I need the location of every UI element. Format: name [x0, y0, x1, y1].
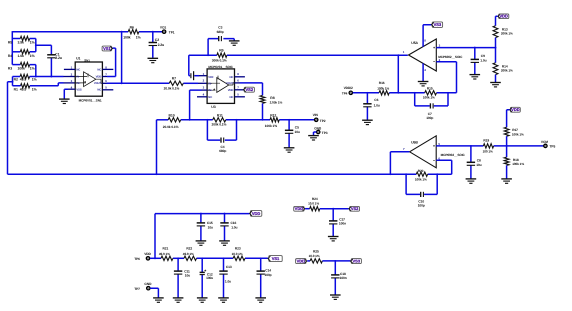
wire ref cap to U3 pin1	[194, 75, 207, 77]
svg-text:C15: C15	[207, 221, 213, 225]
label U1	[76, 57, 90, 63]
wire C3 branch	[208, 39, 234, 56]
flag VDD at rail	[250, 211, 262, 217]
svg-text:NC: NC	[76, 69, 80, 72]
svg-text:VOUT: VOUT	[94, 82, 102, 85]
wire U1 VDD to VS1	[102, 48, 115, 76]
svg-text:10u: 10u	[476, 163, 481, 167]
wire node to R14	[495, 48, 497, 63]
capacitor C17	[329, 218, 346, 226]
pin numbers U5A	[403, 39, 441, 72]
node U5B out junction	[389, 173, 391, 175]
resistor R20	[415, 169, 428, 182]
wire C17 stem	[332, 209, 334, 237]
svg-text:TP3: TP3	[322, 131, 328, 135]
ground U1 VSS	[59, 99, 70, 103]
node R17 R18 junction	[506, 145, 508, 147]
svg-text:10u: 10u	[185, 274, 190, 278]
svg-text:IN+: IN+	[208, 89, 213, 92]
wire C18 stem	[334, 261, 336, 295]
svg-text:R24: R24	[312, 197, 318, 201]
pin stub U3 pin4 NC	[197, 96, 207, 98]
wire U1 output row	[102, 82, 207, 84]
svg-text:VDD: VDD	[144, 252, 151, 256]
svg-text:MCP6V01__SN1: MCP6V01__SN1	[79, 98, 102, 102]
svg-text:680p: 680p	[217, 30, 224, 34]
capacitor C8	[467, 158, 482, 167]
svg-text:SN1: SN1	[84, 59, 90, 63]
svg-text:GND: GND	[144, 282, 152, 286]
svg-text:VO1: VO1	[160, 25, 167, 29]
node C7 right	[447, 92, 449, 94]
op-amp U3 body	[207, 69, 234, 104]
svg-text:IN-: IN-	[208, 82, 212, 85]
pin stub U1 pin5 NC	[102, 89, 113, 91]
svg-text:100p: 100p	[426, 116, 433, 120]
svg-text:100k: 100k	[123, 35, 130, 39]
svg-text:VDD: VDD	[499, 14, 508, 19]
svg-text:VS2: VS2	[246, 87, 254, 92]
wire R9 left node	[189, 55, 217, 75]
resistor R21	[159, 247, 173, 261]
wire U3 output to R8	[235, 83, 263, 96]
wire output feedback riser	[121, 32, 123, 84]
node C11 tap	[177, 257, 179, 259]
ground C16	[219, 241, 230, 245]
wire C8 stem	[470, 146, 472, 179]
ground C6	[362, 120, 373, 124]
wire R24 to VS2	[320, 208, 349, 210]
resistor R15	[423, 87, 437, 100]
svg-text:49.9 1%: 49.9 1%	[159, 252, 170, 256]
op-amp U5B	[410, 136, 437, 168]
wire TP4 row	[353, 92, 457, 94]
svg-text:10u: 10u	[295, 130, 300, 134]
node U5A output tap	[397, 54, 399, 56]
svg-text:R13: R13	[502, 27, 508, 31]
ground TP3	[308, 136, 319, 140]
op-amp U5A	[409, 39, 437, 71]
ground C2	[148, 58, 159, 62]
ground C17	[328, 237, 339, 241]
svg-text:100u: 100u	[206, 276, 213, 280]
node R10-R11 C4 left	[206, 119, 208, 121]
svg-text:680p: 680p	[219, 149, 226, 153]
svg-text:C6: C6	[374, 98, 378, 102]
node feedback top	[121, 31, 123, 33]
resistor R14	[493, 63, 513, 75]
resistor R22	[183, 247, 197, 261]
resistor R7	[164, 77, 184, 91]
wire U1 inverting input row	[30, 76, 76, 78]
wire gain row drop	[156, 120, 158, 174]
capacitor C13	[219, 265, 232, 283]
svg-text:100n: 100n	[340, 276, 347, 280]
svg-text:100k 1%: 100k 1%	[265, 124, 277, 128]
resistor R11	[212, 113, 227, 126]
capacitor C7	[426, 103, 433, 120]
svg-text:R23: R23	[235, 247, 241, 251]
svg-text:VRF: VRF	[208, 76, 214, 79]
capacitor C3	[217, 26, 224, 42]
test point TP5	[541, 140, 556, 149]
wire C11 stem	[177, 258, 179, 297]
ground C14	[255, 298, 266, 302]
wire R3 to inverting node	[30, 65, 36, 77]
test point TP3	[314, 126, 328, 135]
svg-text:NC: NC	[97, 88, 101, 91]
wire C6 stem	[366, 93, 368, 120]
wire U5A VSS pin	[422, 63, 424, 81]
ground C12	[197, 298, 208, 302]
svg-text:100 1%: 100 1%	[483, 150, 493, 154]
svg-text:VSS: VSS	[76, 88, 82, 91]
wire R13 to node	[495, 38, 497, 48]
node feedback bottom	[121, 82, 123, 84]
node rail drop	[154, 257, 156, 259]
svg-text:R9: R9	[219, 49, 223, 53]
svg-text:1%: 1%	[32, 78, 37, 82]
capacitor C9	[471, 54, 487, 62]
node C10 right	[436, 173, 438, 175]
wire C13 stem	[223, 258, 225, 297]
ground R18	[501, 179, 512, 183]
svg-text:R25: R25	[313, 249, 319, 253]
svg-text:R6: R6	[130, 26, 134, 30]
svg-text:1.0k: 1.0k	[18, 54, 25, 58]
wire C12 stem	[201, 258, 203, 297]
node C13 tap	[223, 257, 225, 259]
wire VDD to R25	[307, 260, 310, 262]
svg-text:VS1: VS1	[272, 256, 280, 261]
svg-text:VS3: VS3	[353, 259, 361, 264]
svg-text:C8: C8	[477, 158, 481, 162]
label U5B part	[441, 153, 466, 157]
svg-text:100n: 100n	[339, 221, 346, 225]
svg-text:NC: NC	[208, 96, 212, 99]
wire U3 pin3 to gain node	[190, 90, 208, 120]
svg-text:2.2u: 2.2u	[158, 43, 165, 47]
svg-text:300k 0.1%: 300k 0.1%	[212, 59, 227, 63]
pin names U3	[208, 76, 233, 99]
resistor R3	[8, 62, 35, 70]
label U3 part	[208, 65, 233, 69]
svg-text:1%: 1%	[32, 88, 37, 92]
wire VOUT1 top feedback rail	[12, 31, 162, 33]
svg-text:NC: NC	[97, 69, 101, 72]
wire TP7 to ground	[150, 288, 158, 297]
wire U3 ref cap link	[189, 75, 190, 77]
label U1 part	[79, 98, 102, 102]
node bus-to-IN-	[35, 76, 37, 78]
wire C16 stem	[224, 214, 226, 241]
node C4 right	[236, 119, 238, 121]
capacitor C4 loop wire	[207, 120, 236, 140]
svg-text:VS2: VS2	[351, 206, 359, 211]
resistor R18	[504, 157, 524, 166]
resistor R13	[493, 26, 513, 38]
wire R14 to ground	[495, 75, 497, 83]
ground C9	[470, 75, 481, 79]
wire R25 to VS3	[322, 260, 350, 262]
node U3 IN+ junction	[189, 119, 191, 121]
wire R17 R18 through row	[506, 136, 508, 157]
wire U5A non-inverting input	[436, 47, 495, 49]
svg-text:R5: R5	[8, 41, 12, 45]
svg-text:100p: 100p	[418, 203, 425, 207]
svg-text:20.0k 0.1%: 20.0k 0.1%	[163, 125, 179, 129]
svg-text:1.0u: 1.0u	[374, 103, 380, 107]
ground C5	[284, 148, 295, 152]
svg-text:VDD: VDD	[96, 76, 102, 79]
svg-text:NC: NC	[229, 96, 233, 99]
ground C18	[330, 295, 341, 299]
svg-text:VOUT: VOUT	[226, 82, 234, 85]
wire long feedback rail	[8, 173, 452, 175]
flag VS3 at U5A	[431, 22, 442, 28]
flag VS1 at filter	[268, 256, 282, 262]
wire gain row	[157, 119, 315, 121]
resistor R23	[232, 247, 245, 261]
svg-text:IN+: IN+	[76, 82, 81, 85]
resistor R25	[309, 249, 323, 263]
wire C1 branch	[36, 45, 52, 76]
wire C2 stem	[152, 32, 154, 58]
wire VS1 filter row	[150, 257, 268, 259]
svg-text:VS1: VS1	[103, 46, 111, 51]
flag VDD at R13	[496, 14, 509, 26]
svg-text:1%: 1%	[30, 54, 35, 58]
svg-text:R4: R4	[8, 54, 12, 58]
svg-text:U1: U1	[76, 57, 80, 61]
pin numbers U1	[71, 66, 108, 90]
svg-text:10.0 1%: 10.0 1%	[232, 252, 243, 256]
node C9 tap	[474, 47, 476, 49]
wire U5B non-inverting row	[436, 145, 544, 147]
ground C11	[173, 298, 184, 302]
resistor R16	[377, 81, 389, 95]
ground U5A	[418, 82, 429, 86]
flag VDD at R17	[507, 107, 521, 127]
node C1 tap	[35, 44, 37, 46]
wire U5A VDD pin to VS3	[423, 25, 431, 47]
pin numbers U3	[203, 72, 240, 96]
svg-text:TP1: TP1	[169, 30, 175, 34]
svg-text:R7: R7	[172, 77, 176, 81]
node divider mid	[495, 47, 497, 49]
resistor R17	[504, 127, 524, 136]
resistor R5	[8, 36, 35, 44]
svg-text:1.0u: 1.0u	[225, 279, 231, 283]
svg-text:200k 1%: 200k 1%	[501, 69, 513, 73]
capacitor C16	[220, 221, 237, 230]
svg-text:10u: 10u	[208, 226, 213, 230]
svg-text:TP7: TP7	[134, 287, 140, 291]
wire C9 stem	[474, 48, 476, 75]
wire R5-R4 right bus	[30, 39, 36, 52]
svg-text:VDD: VDD	[252, 211, 261, 216]
flag VS2 at filter	[349, 206, 360, 211]
svg-text:MCP6V01__SOIC: MCP6V01__SOIC	[208, 65, 233, 69]
wire R1 to U1 non-inverting	[30, 83, 75, 86]
wire R2 R1 left tie	[8, 77, 21, 175]
label U5A part	[438, 55, 463, 59]
ground C3	[229, 41, 240, 45]
node C1-to-IN-	[50, 76, 52, 78]
svg-text:VDD: VDD	[228, 89, 234, 92]
svg-text:TP2: TP2	[320, 119, 326, 123]
svg-text:U5A: U5A	[411, 41, 418, 45]
node C10 left	[405, 173, 407, 175]
node C15 tap	[200, 213, 202, 215]
capacitor C6	[363, 98, 380, 107]
test point TP2	[313, 113, 326, 123]
svg-text:C2: C2	[155, 38, 159, 42]
flag VS3 at filter	[350, 259, 361, 264]
capacitor U3 ref	[191, 71, 194, 80]
capacitor C1	[47, 52, 62, 60]
resistor R2	[14, 74, 37, 81]
resistor R4	[8, 50, 35, 58]
svg-text:R16: R16	[379, 81, 385, 85]
svg-text:U3: U3	[211, 105, 215, 109]
resistor R19	[483, 139, 494, 154]
svg-text:3.9k: 3.9k	[18, 41, 25, 45]
svg-text:C13: C13	[226, 265, 232, 269]
node C3 tap	[207, 54, 209, 56]
svg-text:20.0k 0.1%: 20.0k 0.1%	[164, 87, 180, 91]
node C16 tap	[224, 213, 226, 215]
svg-text:200k 0.1%: 200k 0.1%	[212, 123, 227, 127]
capacitor C4	[219, 138, 226, 153]
wire C14 stem	[260, 258, 262, 297]
test point TP7	[134, 282, 152, 291]
svg-text:C3: C3	[218, 26, 222, 30]
pin stub U3 pin5 NC	[235, 96, 245, 98]
svg-text:VDD: VDD	[295, 206, 304, 211]
svg-text:R3: R3	[8, 67, 12, 71]
test point TP6	[134, 252, 151, 261]
wire TP3 to ground	[314, 132, 317, 135]
svg-text:R10: R10	[169, 113, 175, 117]
resistor R1	[14, 84, 37, 92]
resistor R10	[163, 113, 181, 129]
ground C8	[466, 179, 477, 183]
wire VDD rail	[155, 214, 250, 259]
capacitor C11	[174, 270, 190, 278]
wire R18 to ground	[506, 165, 508, 178]
svg-text:C14: C14	[265, 268, 271, 272]
ground C15	[196, 241, 207, 245]
ground R14	[490, 83, 501, 87]
node C7 left	[414, 92, 416, 94]
capacitor C10 loop wire	[406, 174, 437, 194]
svg-text:TP4: TP4	[342, 92, 348, 96]
wire U5A inverting input	[436, 62, 456, 93]
svg-text:100k 1%: 100k 1%	[377, 86, 389, 90]
pin names U1	[76, 69, 101, 92]
capacitor C15	[197, 221, 213, 230]
node R8 junction	[262, 119, 264, 121]
pin stub U3 pin8 NC	[235, 76, 245, 78]
node gain row junction	[156, 173, 158, 175]
node C2 tap	[152, 31, 154, 33]
node C14 tap	[260, 257, 262, 259]
test point TP4	[342, 86, 353, 96]
resistor R6	[123, 26, 140, 40]
wire U5B inverting input	[436, 160, 452, 174]
svg-text:2.2u: 2.2u	[55, 56, 62, 60]
pin stub U1 pin1 NC	[64, 68, 75, 70]
resistor R9	[212, 49, 227, 63]
svg-text:GND: GND	[314, 126, 322, 130]
svg-text:R2: R2	[14, 78, 18, 82]
op-amp U1 body	[75, 62, 102, 96]
pin numbers U5B	[403, 142, 440, 160]
wire C15 stem	[200, 214, 202, 241]
label U3	[211, 105, 215, 109]
node C8 tap	[470, 145, 472, 147]
svg-text:IN-: IN-	[76, 76, 80, 79]
svg-text:VDD: VDD	[511, 107, 520, 112]
svg-text:R21: R21	[163, 247, 169, 251]
flag VS1 at U1	[102, 46, 112, 51]
svg-text:10.0 1%: 10.0 1%	[309, 254, 320, 258]
svg-text:NC: NC	[229, 76, 233, 79]
node C12 tap	[201, 257, 203, 259]
svg-text:TP5: TP5	[550, 145, 556, 149]
svg-text:R14: R14	[502, 64, 508, 68]
svg-text:100k: 100k	[18, 67, 25, 71]
svg-text:200k 1%: 200k 1%	[501, 32, 513, 36]
capacitor C5	[285, 126, 300, 134]
svg-text:VS3: VS3	[434, 22, 442, 27]
ground TP7	[153, 298, 164, 302]
node C5 tap	[288, 119, 290, 121]
svg-text:100p: 100p	[265, 273, 272, 277]
node C18 tap	[334, 260, 336, 262]
svg-text:MCP6002__SOIC: MCP6002__SOIC	[438, 55, 463, 59]
capacitor C14	[257, 268, 272, 276]
node C17 tap	[332, 208, 334, 210]
svg-text:VDD: VDD	[297, 259, 306, 264]
svg-text:100k 1%: 100k 1%	[423, 95, 435, 99]
test point TP1	[160, 25, 175, 34]
svg-text:1.0u: 1.0u	[231, 226, 237, 230]
svg-text:R15: R15	[427, 87, 433, 91]
pin stub U1 pin8 NC	[102, 68, 113, 70]
capacitor C2	[149, 38, 165, 47]
wire C5 stem	[288, 120, 290, 148]
svg-text:1.0u: 1.0u	[480, 59, 486, 63]
svg-text:1%: 1%	[30, 41, 35, 45]
svg-text:1%: 1%	[136, 35, 141, 39]
svg-text:R11: R11	[217, 113, 223, 117]
flag VDD at R24	[294, 206, 305, 211]
svg-text:R22: R22	[186, 247, 192, 251]
svg-text:C16: C16	[231, 221, 237, 225]
svg-text:U5B: U5B	[411, 141, 418, 145]
capacitor C7 loop wire	[415, 93, 448, 106]
wire R8 to divider	[262, 103, 264, 119]
svg-text:10.0 1%: 10.0 1%	[308, 202, 319, 206]
wire left feedback bus	[12, 31, 20, 65]
capacitor C10	[418, 192, 425, 208]
capacitor C18	[331, 272, 347, 280]
svg-text:VIN: VIN	[313, 113, 319, 117]
svg-text:1%: 1%	[30, 67, 35, 71]
wire VDD to R24	[305, 208, 310, 210]
